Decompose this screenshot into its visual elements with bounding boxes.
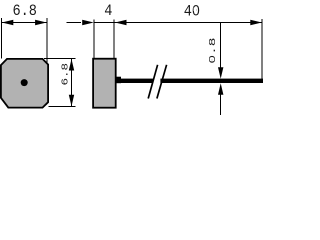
dimension line 6.8 width (2, 22, 47, 24)
arrowhead bottom of 6.8 height dim (pointing down) (69, 95, 74, 107)
extension line left of 6.8 width dim (0, 18, 2, 58)
svg-text:40: 40 (184, 3, 200, 20)
arrowhead right of 6.8 width dim (35, 20, 47, 25)
buzzer body front view (octagon) (1, 59, 48, 108)
extension line right of 4 dim (113, 20, 115, 58)
terminal tab (116, 77, 121, 84)
dimension line 0.8 lower (220, 94, 222, 115)
buzzer body side view (93, 59, 116, 108)
arrowhead of 4 dim (pointing right) (82, 20, 94, 25)
extension line left of 4 dim (93, 20, 95, 58)
arrowhead top of 6.8 height dim (pointing up) (69, 59, 74, 71)
wire right segment (160, 79, 263, 83)
leader tail left of 4 dim (67, 22, 82, 24)
label 0.8 (rotated) (208, 38, 219, 64)
break mark slash 1 (148, 65, 157, 99)
arrowhead 0.8 lower (pointing up) (218, 83, 223, 95)
svg-text:4: 4 (104, 3, 112, 20)
arrowhead left of 6.8 width dim (2, 20, 14, 25)
center dot (21, 79, 28, 86)
svg-text:6.8: 6.8 (61, 63, 71, 86)
wire left segment (121, 79, 153, 83)
extension line bottom of 6.8 height dim (48, 105, 75, 107)
dimension line 0.8 upper (220, 23, 222, 70)
svg-text:0.8: 0.8 (208, 38, 219, 64)
break mark slash 2 (157, 65, 167, 99)
dimension line 6.8 height (71, 59, 73, 107)
arrowhead 0.8 upper (pointing down) (218, 67, 223, 79)
label 40 (184, 3, 200, 20)
arrowhead left of 40 dim (pointing left) (115, 20, 127, 25)
extension line top of 6.8 height dim (44, 58, 76, 60)
arrowhead right of 40 dim (pointing right) (250, 20, 261, 25)
extension line right of 6.8 width dim (46, 18, 48, 63)
svg-text:6.8: 6.8 (13, 3, 37, 20)
dimension line 40 (114, 22, 262, 24)
extension line right of 40 dim (261, 19, 263, 79)
dimension line 4 (94, 22, 114, 24)
